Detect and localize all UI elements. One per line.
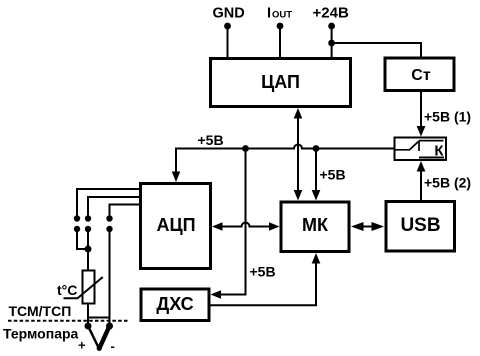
- node +24V branch junction: [328, 40, 335, 47]
- node Iout terminal: [277, 23, 284, 30]
- svg-text:+: +: [78, 338, 86, 353]
- wire +24V to Ct: [332, 43, 421, 57]
- wire line 1 to junction: [77, 229, 88, 249]
- svg-text:GND: GND: [213, 6, 245, 22]
- svg-text:+5В: +5В: [320, 167, 346, 183]
- wire GND lead: [227, 26, 229, 57]
- svg-text:+5В: +5В: [198, 132, 224, 148]
- wire arrow into ADC top: [172, 172, 181, 183]
- wire thermistor bottom: [87, 304, 89, 327]
- block DAC (ЦАП): [211, 59, 351, 107]
- block MK (МК): [281, 202, 349, 252]
- block ADC (АЦП): [141, 184, 211, 269]
- svg-text:ДХС: ДХС: [156, 294, 193, 314]
- svg-text:Термопара: Термопара: [3, 326, 79, 342]
- node rail junction to DHS: [242, 145, 249, 152]
- wire +5V drop to DHS with arrow: [211, 149, 246, 299]
- svg-text:I: I: [267, 6, 271, 22]
- thermocouple junction V: [88, 326, 110, 351]
- wire Iout lead: [279, 26, 281, 57]
- svg-text:-: -: [111, 339, 115, 354]
- wire sensor line 3: [110, 205, 141, 217]
- svg-text:МК: МК: [302, 215, 329, 235]
- wire DHS to MK bottom with arrow: [211, 253, 321, 305]
- wire sensor line 2: [88, 197, 140, 216]
- block stabilizer Ct (Ст): [385, 58, 454, 91]
- node thermocouple - terminal: [106, 323, 113, 330]
- svg-text:ЦАП: ЦАП: [261, 72, 300, 92]
- wire Ct to relay K with arrow: [417, 92, 426, 137]
- node terminal 1b: [74, 226, 80, 232]
- block USB: [386, 202, 455, 252]
- svg-text:+5В: +5В: [250, 264, 276, 280]
- svg-text:+5В (1): +5В (1): [424, 109, 471, 125]
- wire line 3 down: [109, 229, 111, 326]
- wire USB to relay K with arrow: [417, 161, 426, 200]
- node +24V terminal: [328, 23, 335, 30]
- wire +5V rail with hop: [176, 145, 394, 174]
- wire rail to MK top with arrow: [312, 149, 321, 201]
- block DHS (ДХС): [141, 289, 209, 321]
- svg-text:+24В: +24В: [313, 5, 349, 22]
- wire +24V lead: [331, 26, 333, 57]
- relay contact K: [395, 138, 447, 161]
- boundary dashed line: [8, 320, 129, 322]
- wire sensor line 1: [77, 189, 140, 216]
- svg-text:ТСМ/ТСП: ТСМ/ТСП: [9, 303, 72, 319]
- svg-text:USB: USB: [400, 215, 440, 236]
- wire MK-USB bidirectional arrow: [351, 222, 384, 231]
- svg-text:Ст: Ст: [411, 67, 431, 84]
- wire connection bar: [88, 317, 110, 319]
- node GND terminal: [224, 23, 231, 30]
- node thermocouple + terminal: [85, 323, 92, 330]
- svg-text:+5В (2): +5В (2): [424, 175, 471, 191]
- svg-text:t°C: t°C: [57, 282, 77, 298]
- node terminal 2a: [85, 215, 91, 221]
- node terminal 3b: [106, 226, 112, 232]
- node junction lines 1+2: [85, 246, 92, 253]
- node terminal 2b: [85, 226, 91, 232]
- wire line 2 down to thermistor: [87, 229, 89, 270]
- node rail junction to MK: [313, 145, 320, 152]
- node terminal 3a: [106, 215, 112, 221]
- node terminal 1a: [74, 215, 80, 221]
- wire ADC-MK bidirectional arrow with hop: [212, 222, 280, 231]
- thermistor RTD body: [64, 271, 103, 304]
- wire DAC-MK bidirectional arrow: [294, 108, 303, 201]
- svg-text:АЦП: АЦП: [156, 215, 195, 235]
- svg-text:К: К: [434, 143, 444, 160]
- svg-text:OUT: OUT: [272, 10, 292, 21]
